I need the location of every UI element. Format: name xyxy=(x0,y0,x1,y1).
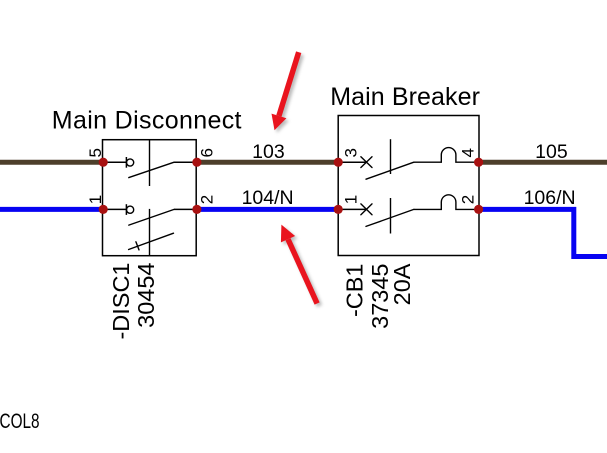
svg-text:2: 2 xyxy=(459,195,478,204)
breaker pole 1 lead wire xyxy=(338,161,366,163)
junction dot disconnect pin 6 xyxy=(192,158,201,167)
breaker CB1 box outline xyxy=(338,116,479,256)
svg-text:105: 105 xyxy=(535,141,568,163)
breaker pole 1 contact cross leg 2 xyxy=(361,157,372,168)
disconnect pole 1 contact circle xyxy=(127,159,134,166)
svg-text:1: 1 xyxy=(86,195,105,204)
wire 106/N neutral right segment with corner drop (blue) xyxy=(479,209,607,256)
svg-text:COL8: COL8 xyxy=(0,408,40,432)
breaker pole 2 lead wire xyxy=(338,208,366,210)
junction dot breaker pin 4 xyxy=(474,158,483,167)
breaker pole 2 linkage line xyxy=(390,198,392,234)
svg-text:-DISC1: -DISC1 xyxy=(108,263,134,340)
junction dot disconnect pin 1 xyxy=(99,205,108,214)
svg-text:2: 2 xyxy=(198,195,217,204)
breaker pole 1 contact cross leg 1 xyxy=(361,157,372,168)
junction dot breaker pin 1 xyxy=(334,205,343,214)
wire 104/N neutral between disconnect and breaker (blue) xyxy=(196,207,338,212)
disconnect pole 2 contact circle xyxy=(127,206,134,213)
junction dot disconnect pin 5 xyxy=(99,158,108,167)
disconnect linkage line lower segment xyxy=(149,209,151,256)
svg-text:3: 3 xyxy=(342,148,361,157)
svg-text:4: 4 xyxy=(459,148,478,157)
disconnect pole 1 output lead xyxy=(174,161,196,163)
svg-text:Main Disconnect: Main Disconnect xyxy=(52,107,242,135)
junction dot breaker pin 3 xyxy=(334,158,343,167)
disconnect pole 2 auxiliary cross tick xyxy=(136,242,139,250)
wire 105 phase right segment (brown) xyxy=(479,160,607,165)
svg-text:103: 103 xyxy=(252,141,285,163)
disconnect pole 2 lead wire xyxy=(103,208,127,210)
breaker pole 1 linkage line xyxy=(390,139,392,174)
breaker pole 2 output lead with thermal hump xyxy=(414,195,479,210)
disconnect linkage line upper segment xyxy=(149,140,151,186)
disconnect pole 1 switch blade xyxy=(129,162,174,177)
svg-text:104/N: 104/N xyxy=(242,187,294,209)
breaker pole 1 switch blade xyxy=(366,162,414,179)
wire 104/N neutral left segment (blue) xyxy=(0,207,103,212)
junction dot disconnect pin 2 xyxy=(192,205,201,214)
breaker pole 1 output lead with thermal hump xyxy=(414,148,479,163)
wire 103 phase left segment (brown) xyxy=(0,160,103,165)
wire 103 phase between disconnect and breaker (brown) xyxy=(196,160,338,165)
annotation arrow 2 pointing up-left at wire 104/N xyxy=(281,225,317,304)
svg-text:30454: 30454 xyxy=(133,263,159,328)
annotation arrow 1 pointing down-left at wire 103 xyxy=(272,52,299,130)
breaker pole 2 contact cross leg 2 xyxy=(361,204,372,215)
disconnect pole 2 auxiliary blade xyxy=(129,233,174,249)
svg-text:1: 1 xyxy=(342,195,361,204)
disconnect pole 2 contact tick xyxy=(125,204,127,215)
svg-text:20A: 20A xyxy=(389,263,415,305)
disconnect pole 1 lead wire xyxy=(103,161,127,163)
disconnect pole 2 output lead xyxy=(174,208,196,210)
svg-text:6: 6 xyxy=(198,148,217,157)
disconnect pole 2 switch blade xyxy=(129,209,174,225)
svg-text:5: 5 xyxy=(86,148,105,157)
breaker pole 2 contact cross leg 1 xyxy=(361,204,372,215)
breaker pole 2 switch blade xyxy=(366,209,414,226)
annotation arrow 2 shadow xyxy=(283,227,319,306)
svg-text:106/N: 106/N xyxy=(524,187,576,209)
disconnect pole 1 contact tick xyxy=(125,157,127,168)
svg-text:-CB1: -CB1 xyxy=(342,264,368,318)
annotation arrow 1 shadow xyxy=(274,55,301,133)
junction dot breaker pin 2 xyxy=(474,205,483,214)
svg-text:Main Breaker: Main Breaker xyxy=(330,83,480,111)
disconnect DISC1 box outline xyxy=(103,140,197,256)
